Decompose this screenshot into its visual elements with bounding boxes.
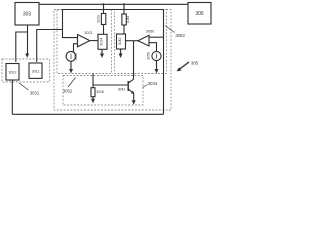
leader 3052 bbox=[68, 78, 76, 88]
wire rail to 3043 bbox=[123, 4, 125, 14]
box 3042 bbox=[117, 34, 126, 49]
svg-text:3041: 3041 bbox=[118, 88, 126, 92]
svg-text:3053: 3053 bbox=[175, 33, 185, 38]
node dot 1 bbox=[102, 3, 104, 5]
dashed box 3031 bbox=[2, 59, 50, 82]
svg-text:3012: 3012 bbox=[9, 71, 17, 75]
arrow below 3026 bbox=[91, 99, 95, 104]
wire inv input stage 2 bbox=[149, 43, 157, 52]
wire bottom rail bbox=[12, 113, 163, 115]
arrow into 3031 bbox=[25, 54, 29, 58]
wire inv input stage 1 bbox=[74, 44, 78, 52]
current source 3056 bbox=[152, 51, 161, 60]
svg-text:306: 306 bbox=[195, 11, 204, 17]
svg-text:3023: 3023 bbox=[97, 15, 101, 23]
outer dashed box 305 bbox=[54, 10, 171, 111]
node dot 2 bbox=[123, 3, 125, 5]
svg-text:3022: 3022 bbox=[74, 53, 78, 61]
wire 3024 down bbox=[101, 49, 103, 54]
box 303 bbox=[15, 3, 39, 26]
wire 3043 to 3042 bbox=[123, 25, 125, 34]
svg-text:3034: 3034 bbox=[148, 81, 158, 86]
svg-text:3052: 3052 bbox=[63, 89, 73, 94]
wire collector tap bbox=[133, 41, 135, 80]
transistor 3041 bbox=[127, 81, 129, 91]
arrow below 3024 bbox=[100, 54, 104, 59]
wire noninv input stage 2 bbox=[149, 36, 164, 38]
svg-text:3011: 3011 bbox=[32, 70, 40, 74]
svg-text:305: 305 bbox=[191, 61, 199, 66]
leader 3031 bbox=[19, 83, 29, 90]
svg-text:3056: 3056 bbox=[146, 52, 150, 60]
wire noninv input stage 1 bbox=[63, 10, 78, 38]
svg-text:3031: 3031 bbox=[30, 91, 40, 96]
svg-text:3026: 3026 bbox=[96, 90, 104, 94]
wire bias node bbox=[92, 74, 94, 88]
arrow 305 bbox=[179, 62, 189, 70]
wire 303 to arrow bbox=[27, 25, 29, 54]
arrow below 3022 bbox=[69, 69, 73, 73]
leader 3053 bbox=[165, 26, 175, 33]
box 3012 bbox=[6, 64, 19, 81]
wire emitter down bbox=[133, 94, 135, 101]
resistor 3043 bbox=[122, 14, 126, 25]
resistor 3023 bbox=[101, 14, 105, 25]
wire base bbox=[93, 84, 128, 86]
wire rail to 3023 bbox=[103, 4, 105, 13]
svg-text:303: 303 bbox=[23, 12, 32, 18]
box 306 bbox=[188, 3, 211, 25]
resistor 3026 bbox=[91, 88, 95, 97]
inner dashed box stage 2 bbox=[115, 10, 167, 74]
wire right branch bbox=[163, 10, 165, 115]
wire 3022 down bbox=[70, 61, 72, 69]
op-amp 3050 bbox=[138, 35, 149, 46]
op-amp 3021 bbox=[78, 35, 90, 47]
wire 3026 down bbox=[92, 97, 94, 99]
current source 3022 bbox=[66, 51, 76, 61]
svg-text:3050: 3050 bbox=[146, 30, 154, 34]
wire 3042 down bbox=[120, 49, 122, 54]
wire top rail bbox=[39, 3, 188, 5]
wire 3056 down bbox=[156, 61, 158, 70]
svg-text:3043: 3043 bbox=[126, 16, 130, 24]
svg-text:3024: 3024 bbox=[100, 38, 104, 46]
wire branch to 3012 bbox=[16, 32, 28, 62]
wire 3023 to 3024 bbox=[103, 25, 105, 35]
box 3011 bbox=[29, 63, 42, 78]
wire to 3011 and opamp input bbox=[37, 30, 63, 63]
arrow emitter end bbox=[132, 100, 136, 105]
arrow below 3056 bbox=[155, 69, 159, 73]
inner dashed box stage 1 bbox=[57, 10, 112, 74]
wire second rail bbox=[63, 9, 164, 11]
arrow below 3042 bbox=[119, 54, 123, 59]
box 3024 bbox=[98, 34, 107, 49]
svg-text:3042: 3042 bbox=[118, 38, 122, 46]
wire 3012 to bottom rail bbox=[11, 80, 13, 114]
wire opamp1 output bbox=[90, 40, 98, 42]
leader 3034 bbox=[143, 85, 148, 88]
svg-text:3021: 3021 bbox=[84, 31, 92, 35]
wire opamp2 output to 3042 bbox=[126, 40, 139, 42]
inner dashed box transistor stage bbox=[63, 76, 143, 106]
